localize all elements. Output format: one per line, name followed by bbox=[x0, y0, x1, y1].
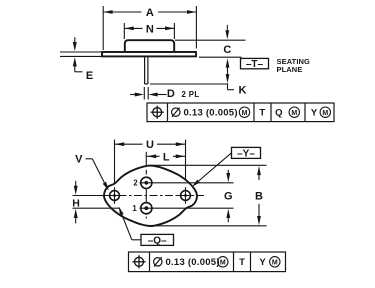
svg-text:0.13 (0.005): 0.13 (0.005) bbox=[166, 257, 220, 268]
extension line U left bbox=[114, 140, 116, 188]
pin 1 crosshair / G extension line bbox=[140, 207, 234, 209]
datum Y box bbox=[232, 147, 261, 158]
dimension C top arrow bbox=[226, 25, 228, 32]
svg-text:2: 2 bbox=[133, 179, 138, 188]
svg-text:Y: Y bbox=[311, 108, 318, 119]
frame 2 M circle 1 bbox=[218, 257, 228, 267]
svg-text:M: M bbox=[272, 259, 278, 266]
dimension A line with arrows bbox=[103, 11, 141, 13]
lead pin (side view, 2 overlapping) bbox=[144, 57, 146, 85]
dimension H bottom arrow bbox=[75, 217, 77, 223]
dimension U line with arrows bbox=[115, 143, 143, 145]
frame 1 diameter symbol bbox=[172, 108, 180, 116]
frame 2 M circle 2 bbox=[270, 257, 280, 267]
frame 1 position symbol bbox=[153, 108, 162, 117]
svg-text:2 PL: 2 PL bbox=[182, 90, 200, 99]
pin 2 circle bbox=[141, 177, 152, 188]
extension line from cap top (for C) bbox=[175, 39, 246, 41]
dimension E top arrow bbox=[74, 37, 76, 44]
side view: extension line N left bbox=[123, 23, 125, 39]
dimension G bottom arrow bbox=[227, 217, 229, 223]
package outline (TO-3 flange, bottom view) bbox=[104, 166, 197, 226]
frame 1 M circle 3 bbox=[320, 107, 330, 117]
side view: extension line A left bbox=[102, 6, 104, 50]
svg-text:C: C bbox=[223, 44, 231, 56]
V leader line bbox=[86, 158, 93, 160]
frame 2 position symbol bbox=[135, 257, 144, 266]
svg-text:V: V bbox=[75, 154, 83, 166]
svg-text:1: 1 bbox=[132, 204, 137, 213]
svg-text:Q: Q bbox=[275, 108, 282, 119]
pin 2 crosshair / G extension line bbox=[140, 182, 234, 184]
extension line from pin bottom (for K) bbox=[150, 83, 228, 85]
dimension E bottom arrow and elbow bbox=[73, 57, 77, 66]
dimension K elbow bbox=[227, 83, 229, 89]
extension line U right bbox=[185, 140, 187, 189]
dimension L line with arrows bbox=[147, 155, 160, 157]
svg-text:H: H bbox=[72, 197, 80, 209]
svg-text:N: N bbox=[146, 23, 154, 35]
feature control frame 2 box bbox=[129, 252, 286, 272]
Y leader line bbox=[199, 153, 232, 181]
svg-text:T: T bbox=[259, 108, 265, 119]
svg-text:L: L bbox=[163, 151, 170, 163]
dimension D left arrow bbox=[130, 94, 136, 96]
dimension B bottom arrow bbox=[258, 204, 260, 217]
svg-text:M: M bbox=[291, 110, 297, 117]
vertical center line through pins bbox=[145, 170, 147, 175]
dimension N line with arrows bbox=[125, 27, 143, 29]
datum T box bbox=[241, 58, 269, 68]
svg-text:–Y–: –Y– bbox=[237, 148, 255, 159]
mounting hole left bbox=[110, 191, 120, 201]
extension line B bottom bbox=[152, 225, 267, 227]
dimension H top arrow bbox=[75, 181, 77, 187]
mounting hole right bbox=[181, 191, 191, 201]
svg-text:0.13 (0.005): 0.13 (0.005) bbox=[184, 108, 238, 119]
svg-text:–Q–: –Q– bbox=[148, 235, 167, 246]
extension lines E (flange thickness) bbox=[60, 51, 102, 53]
side view: extension line A right bbox=[195, 6, 197, 49]
pin 1 circle bbox=[141, 203, 152, 214]
extension line L left bbox=[145, 152, 147, 176]
extension line H top bbox=[73, 195, 109, 197]
svg-text:B: B bbox=[255, 190, 263, 202]
svg-text:D: D bbox=[167, 88, 175, 100]
extension line B top bbox=[151, 164, 267, 166]
datum Q box bbox=[141, 234, 174, 245]
frame 1 M circle 2 bbox=[289, 107, 299, 117]
svg-text:A: A bbox=[146, 7, 154, 19]
extension line H bottom bbox=[73, 207, 120, 209]
svg-text:K: K bbox=[239, 84, 247, 96]
svg-text:U: U bbox=[146, 139, 154, 151]
seating plane line bbox=[199, 56, 242, 58]
svg-text:T: T bbox=[239, 257, 245, 268]
svg-text:M: M bbox=[242, 110, 248, 117]
cap (metal can) outline bbox=[125, 40, 174, 52]
side view: extension line N right bbox=[173, 23, 175, 39]
svg-text:Y: Y bbox=[259, 257, 266, 268]
horizontal center line (dashed) bbox=[103, 195, 207, 197]
feature control frame 1 box bbox=[147, 103, 334, 122]
dimension D right arrow bbox=[156, 94, 166, 96]
frame 1 M circle 1 bbox=[239, 107, 249, 117]
Q leader line bbox=[132, 239, 141, 241]
extension lines D (pin width) bbox=[143, 87, 145, 100]
dimension B top arrow bbox=[258, 175, 260, 181]
frame 2 diameter symbol bbox=[154, 258, 162, 266]
svg-text:M: M bbox=[220, 259, 226, 266]
flange (mounting base) outline bbox=[102, 52, 196, 56]
svg-text:–T–: –T– bbox=[246, 59, 264, 70]
svg-text:M: M bbox=[322, 110, 328, 117]
dimension G top arrow bbox=[227, 170, 229, 175]
dimension K double arrow bbox=[226, 58, 230, 67]
svg-text:E: E bbox=[86, 70, 93, 82]
svg-text:G: G bbox=[224, 190, 233, 202]
svg-text:PLANE: PLANE bbox=[277, 65, 303, 74]
